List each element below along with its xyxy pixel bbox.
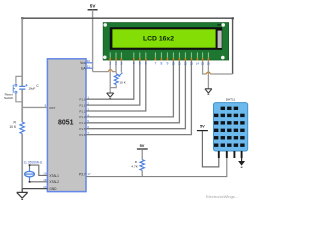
wire 8051 P1.1 to LCD xyxy=(86,61,140,106)
svg-text:4: 4 xyxy=(133,62,135,66)
svg-text:P1.2: P1.2 xyxy=(79,109,86,113)
svg-text:5V: 5V xyxy=(140,143,145,148)
wire hop arc xyxy=(109,70,113,72)
wire 8051 P1.0 to LCD xyxy=(86,61,134,100)
wire DHT leg1 to 5V xyxy=(202,131,218,167)
svg-text:15: 15 xyxy=(201,62,205,66)
reset switch S1 xyxy=(13,84,17,93)
svg-text:XTAL2: XTAL2 xyxy=(49,180,59,184)
ground LCD pin16 xyxy=(205,89,212,94)
svg-text:4.7K: 4.7K xyxy=(131,164,138,168)
wire 8051 P1.3 to LCD xyxy=(86,61,173,117)
svg-text:LCD 16x2: LCD 16x2 xyxy=(143,35,174,42)
svg-text:ElectronicWings....: ElectronicWings.... xyxy=(206,194,239,199)
ground DHT11 pin4 xyxy=(241,158,243,161)
svg-text:P3.7: P3.7 xyxy=(79,172,86,176)
8051 microcontroller U1 xyxy=(47,59,86,192)
wire GND pin20 xyxy=(22,188,47,190)
wire top 5V rail xyxy=(21,17,23,19)
wire hop arc pin16 xyxy=(207,72,211,74)
wire LCD pin16 to ground xyxy=(207,61,209,89)
svg-text:10: 10 xyxy=(172,62,176,66)
ground LCD pin1 xyxy=(107,93,114,98)
wire LCD pin3 to pot wiper xyxy=(120,61,122,73)
svg-text:GND: GND xyxy=(49,187,57,191)
5V supply DHT11 xyxy=(197,124,208,131)
LCD pin numbers 1-16 xyxy=(109,62,210,66)
svg-text:P1.0: P1.0 xyxy=(79,98,86,102)
svg-text:3: 3 xyxy=(120,62,122,66)
svg-text:Vcc: Vcc xyxy=(80,61,86,65)
wire LCD pin15 to 5V rail xyxy=(203,61,233,75)
svg-text:9: 9 xyxy=(166,62,168,66)
resistor R 10K xyxy=(20,122,24,134)
svg-text:P1.1: P1.1 xyxy=(79,103,86,107)
svg-text:17: 17 xyxy=(87,172,91,176)
wire 8051 P1.4 to LCD xyxy=(86,61,179,123)
svg-text:P1.6: P1.6 xyxy=(79,133,86,137)
svg-text:RST: RST xyxy=(49,106,55,110)
wire RST to 8051 pin9 xyxy=(22,106,47,108)
pin Vcc 40 wire xyxy=(86,62,93,64)
svg-text:11.0592MHz: 11.0592MHz xyxy=(23,160,42,164)
svg-text:8051: 8051 xyxy=(58,120,74,127)
DHT11 legs xyxy=(219,151,242,158)
svg-text:1: 1 xyxy=(109,62,111,66)
svg-text:12: 12 xyxy=(184,62,188,66)
svg-text:5V: 5V xyxy=(90,4,97,9)
svg-text:10 K: 10 K xyxy=(119,80,126,84)
svg-text:10uF: 10uF xyxy=(28,87,35,91)
svg-text:P1.5: P1.5 xyxy=(79,127,86,131)
5V supply symbol top xyxy=(88,4,98,72)
LCD pin pads xyxy=(109,58,209,61)
svg-text:5V: 5V xyxy=(200,124,205,129)
wire 5V to LCD pin2 with hop over pin1 xyxy=(93,61,116,72)
LCD pin name marks xyxy=(110,52,209,57)
reset switch branch xyxy=(16,76,22,101)
wire 8051 P3.7 pin17 to DHT11 data xyxy=(86,158,227,177)
svg-text:20: 20 xyxy=(43,185,47,189)
svg-text:2: 2 xyxy=(115,62,117,66)
svg-text:Switch: Switch xyxy=(4,96,13,100)
wire left 5V rail down xyxy=(21,18,23,188)
svg-text:18: 18 xyxy=(43,178,47,182)
svg-text:8: 8 xyxy=(160,62,162,66)
svg-text:16: 16 xyxy=(207,62,211,66)
pin EA 31 wire xyxy=(86,67,93,69)
potentiometer 10K contrast xyxy=(114,74,118,85)
wire 8051 P1.5 to LCD xyxy=(86,61,185,129)
svg-text:5: 5 xyxy=(139,62,141,66)
svg-text:40: 40 xyxy=(87,59,91,63)
resistor R 4.7K pullup xyxy=(137,143,148,176)
svg-text:DHT11: DHT11 xyxy=(226,98,236,102)
svg-text:14: 14 xyxy=(196,62,200,66)
svg-text:19: 19 xyxy=(43,172,47,176)
svg-text:P1.4: P1.4 xyxy=(79,121,86,125)
svg-text:P1.3: P1.3 xyxy=(79,115,86,119)
wire right rail to LCD backlight xyxy=(232,18,234,74)
svg-text:13: 13 xyxy=(190,62,194,66)
svg-text:7: 7 xyxy=(154,62,156,66)
wire 8051 P1.2 to LCD xyxy=(86,61,146,112)
svg-text:31: 31 xyxy=(87,65,91,69)
LCD 16x2 module xyxy=(103,23,229,60)
svg-text:XTAL1: XTAL1 xyxy=(49,174,59,178)
capacitor C 10uF xyxy=(19,84,28,89)
ground main xyxy=(21,189,23,193)
wire LCD pin1 to ground xyxy=(109,61,111,94)
svg-text:10 K: 10 K xyxy=(9,125,17,129)
svg-text:6: 6 xyxy=(145,62,147,66)
svg-text:11: 11 xyxy=(178,62,181,66)
wire 8051 P1.6 to LCD xyxy=(86,61,191,135)
